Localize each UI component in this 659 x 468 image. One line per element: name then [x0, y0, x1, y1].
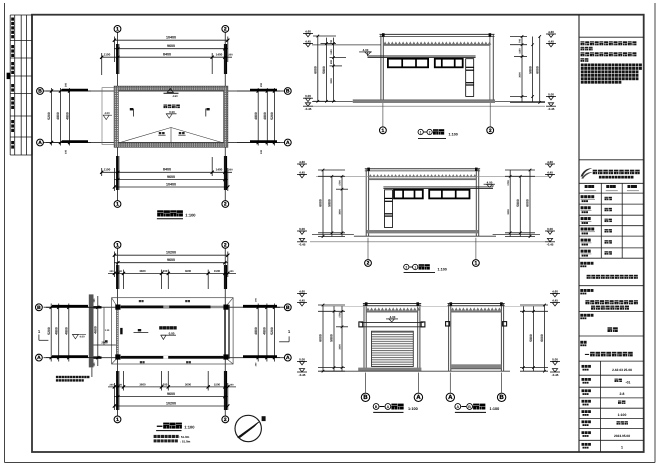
svg-text:1: 1: [116, 417, 119, 423]
grid line B: [44, 90, 285, 92]
svg-text:0.50: 0.50: [169, 110, 175, 114]
svg-text:0.00: 0.00: [547, 227, 553, 231]
svg-text:4800: 4800: [56, 112, 60, 120]
building outline: [448, 304, 450, 372]
svg-text:4.45: 4.45: [548, 39, 554, 43]
svg-text:4.60: 4.60: [552, 289, 558, 293]
svg-text:B: B: [363, 394, 368, 401]
sheet name cell: [580, 341, 583, 344]
svg-text:3300: 3300: [330, 78, 333, 84]
notes under ramp: [56, 376, 58, 378]
svg-text:1: 1: [475, 261, 478, 267]
svg-text:200: 200: [230, 270, 235, 273]
svg-text:200: 200: [110, 270, 115, 273]
elev1 right dims: [521, 37, 523, 103]
svg-text:4800: 4800: [65, 112, 69, 120]
svg-text:5200: 5200: [47, 112, 51, 120]
canopy: [368, 55, 476, 57]
svg-text:-0.45: -0.45: [299, 373, 306, 377]
svg-text:4.60: 4.60: [299, 289, 305, 293]
canopy: [361, 321, 424, 323]
elev2 left dims: [322, 170, 324, 237]
svg-text:10200: 10200: [166, 251, 176, 255]
svg-text:4600: 4600: [94, 326, 98, 334]
svg-text:3300: 3300: [507, 209, 510, 215]
elev4 right dims: [522, 306, 524, 371]
elev2 right flags: [545, 163, 555, 165]
svg-text:1: 1: [382, 128, 385, 134]
door width dim: [94, 344, 116, 346]
grid line 1: [117, 32, 119, 200]
svg-text:B: B: [37, 305, 41, 311]
svg-text:2000: 2000: [101, 340, 108, 344]
svg-text:1: 1: [116, 26, 119, 32]
binding-edge black mark: [7, 73, 11, 79]
svg-text:10200: 10200: [166, 401, 176, 405]
svg-text:3600: 3600: [139, 269, 146, 273]
svg-text:1500: 1500: [214, 382, 221, 386]
louver stack: [385, 190, 393, 228]
svg-text:4.60: 4.60: [299, 160, 305, 164]
canopy: [383, 186, 493, 188]
svg-text:2023.05.08: 2023.05.08: [614, 434, 630, 438]
svg-text:1700: 1700: [339, 180, 342, 186]
svg-text:200: 200: [260, 82, 263, 87]
svg-text:B: B: [286, 305, 290, 311]
svg-text:5200: 5200: [47, 327, 51, 335]
svg-text:200: 200: [228, 54, 233, 57]
svg-text:1: 1: [116, 202, 119, 208]
window band: [388, 59, 428, 68]
svg-text:-0.45: -0.45: [547, 243, 554, 247]
svg-text:6000: 6000: [535, 66, 539, 74]
svg-text:4.60: 4.60: [305, 29, 311, 33]
grid line A: [44, 357, 285, 359]
svg-text:2: 2: [405, 265, 407, 269]
cap corner ticks: [382, 33, 385, 36]
slope ticks: [133, 109, 135, 117]
elevation grid bubbles: [382, 103, 384, 127]
roof plan caption: [157, 210, 163, 216]
svg-text:1:100: 1:100: [185, 212, 196, 217]
caption 1-2: [418, 129, 423, 134]
door tag: [138, 329, 141, 331]
svg-text:A: A: [38, 140, 42, 146]
construction unit cell: [580, 289, 583, 292]
svg-text:1:10: 1:10: [105, 329, 110, 332]
floor grid bubbles: [114, 241, 121, 248]
svg-text:A: A: [416, 394, 421, 401]
floor plan left dimensions: [50, 304, 52, 362]
canopy stubs: [446, 322, 450, 326]
svg-text:4.45: 4.45: [299, 170, 305, 174]
heavy grid witness bars bottom: [116, 156, 118, 190]
roof slab hatched band: [114, 86, 228, 147]
svg-text:1100: 1100: [519, 48, 522, 54]
cap corner ticks: [450, 302, 453, 305]
roof bottom dimensions: [102, 171, 232, 173]
cap corner ticks: [365, 302, 368, 305]
svg-text:0.00: 0.00: [299, 357, 305, 361]
svg-text:9600: 9600: [167, 44, 175, 48]
svg-text:B: B: [468, 405, 471, 409]
svg-text:3600: 3600: [139, 382, 146, 386]
svg-text:9600: 9600: [167, 175, 175, 179]
svg-text:1:100: 1:100: [184, 424, 195, 429]
slope labels: [159, 132, 162, 134]
elev2 right dims: [509, 170, 511, 237]
svg-text:10400: 10400: [166, 182, 176, 186]
svg-text:3600: 3600: [185, 382, 192, 386]
svg-text:A: A: [37, 355, 41, 361]
svg-text:800: 800: [330, 59, 333, 64]
floor plan bottom dimensions: [108, 386, 236, 388]
svg-text:1500: 1500: [214, 269, 221, 273]
caption A-B: [455, 404, 461, 410]
svg-text:4800: 4800: [54, 327, 58, 335]
svg-text:B: B: [499, 394, 504, 401]
svg-text:1: 1: [414, 265, 416, 269]
svg-text:1:100: 1:100: [490, 407, 500, 411]
svg-text:5200: 5200: [270, 327, 274, 335]
roof top dimensions: [114, 39, 227, 41]
svg-text:0.00: 0.00: [299, 227, 305, 231]
grid line 2: [224, 248, 226, 416]
columns: [115, 305, 120, 310]
roof grid bubbles: [114, 26, 121, 33]
svg-text:1400: 1400: [216, 53, 223, 57]
svg-text:A: A: [387, 405, 390, 409]
parapet top level marker: [167, 89, 173, 93]
right wall (double line): [224, 305, 226, 359]
grid line 2: [224, 32, 226, 200]
minus level line: [310, 241, 545, 243]
svg-text:5800: 5800: [328, 199, 332, 207]
svg-text:2: 2: [429, 130, 431, 134]
svg-text:4.00: 4.00: [487, 180, 493, 184]
ground band: [367, 230, 479, 233]
elev1 left dims: [317, 36, 319, 102]
level line 0.00: [312, 100, 353, 102]
svg-text:1700: 1700: [507, 180, 510, 186]
svg-text:1100: 1100: [104, 168, 111, 172]
svg-text:200: 200: [110, 383, 115, 386]
ground band: [353, 100, 495, 103]
minus level line: [310, 105, 545, 107]
window band: [394, 190, 423, 199]
svg-text:2: 2: [224, 417, 227, 423]
svg-text:1:100: 1:100: [449, 133, 458, 137]
parapet wave: [451, 308, 501, 311]
svg-text:1100: 1100: [330, 49, 333, 55]
svg-text:200: 200: [65, 82, 68, 87]
grid line B: [44, 306, 285, 308]
slope annotation: [164, 105, 168, 109]
elev3 left dims: [322, 305, 324, 371]
caption B-A: [373, 404, 379, 410]
svg-text:1: 1: [621, 446, 623, 450]
svg-text:2: 2: [224, 26, 227, 32]
title block: [579, 36, 644, 38]
svg-text:1400: 1400: [216, 168, 223, 172]
elev2 left flags: [297, 163, 307, 165]
svg-text:4800: 4800: [65, 327, 69, 335]
heavy grid witness bars top: [116, 44, 118, 74]
heavy grid witness bars: [116, 265, 118, 289]
svg-text:2-8: 2-8: [620, 392, 625, 396]
left wall (hatched): [116, 305, 119, 360]
svg-text:1: 1: [116, 242, 119, 248]
elev4 right flags: [550, 293, 560, 295]
building outline: [380, 34, 382, 101]
svg-text:-0.45: -0.45: [552, 373, 559, 377]
svg-text:1:100: 1:100: [438, 267, 447, 271]
ground band: [358, 368, 421, 372]
svg-text:2: 2: [224, 242, 227, 248]
room label: [159, 326, 162, 329]
svg-text:8400: 8400: [163, 53, 171, 57]
svg-text:200: 200: [230, 383, 235, 386]
bottom wall: [121, 356, 224, 359]
svg-text:B: B: [375, 405, 378, 409]
svg-text:-01: -01: [626, 381, 631, 385]
svg-text:4.60: 4.60: [548, 30, 554, 34]
louver stack: [466, 59, 474, 97]
revision strip table: [10, 14, 32, 16]
svg-text:9600: 9600: [167, 392, 175, 396]
svg-text:6000: 6000: [319, 199, 323, 207]
elevation grid bubbles: [365, 373, 367, 393]
svg-text:A: A: [286, 355, 290, 361]
building outline: [363, 304, 365, 372]
elev1 right flags: [546, 33, 556, 35]
svg-text:3600: 3600: [519, 72, 522, 78]
svg-text:8400: 8400: [163, 168, 171, 172]
svg-text:100: 100: [65, 149, 68, 154]
svg-text:5800: 5800: [516, 199, 520, 207]
roof left dimensions: [51, 88, 53, 146]
elevation grid bubbles: [449, 373, 451, 393]
svg-text:-0.45: -0.45: [299, 243, 306, 247]
svg-text:700: 700: [519, 38, 522, 43]
parapet wave: [366, 308, 420, 311]
svg-text:5800: 5800: [330, 334, 334, 342]
svg-text:0.00: 0.00: [552, 357, 558, 361]
svg-text:1: 1: [420, 130, 422, 134]
project name cell: [580, 314, 583, 317]
svg-text:4.45: 4.45: [299, 298, 305, 302]
svg-text:A: A: [456, 405, 459, 409]
svg-text:100: 100: [260, 149, 263, 154]
svg-text:6000: 6000: [319, 334, 323, 342]
outer border: [4, 3, 6, 463]
svg-text:4.00: 4.00: [79, 336, 85, 339]
header row: [585, 185, 588, 188]
floor plan right dimensions: [257, 304, 259, 362]
roof right dimensions: [257, 88, 259, 146]
design unit cell: [580, 262, 583, 265]
grid line 1: [117, 248, 119, 416]
level line across both: [323, 305, 545, 307]
door leaf: [120, 328, 122, 334]
svg-text:4.45: 4.45: [552, 298, 558, 302]
svg-text:200: 200: [228, 169, 233, 172]
roof overhang outline: [112, 298, 234, 364]
svg-text:1:100: 1:100: [618, 413, 627, 417]
svg-text:2: 2: [367, 261, 370, 267]
svg-text:B: B: [38, 89, 42, 95]
elevation grid bubbles: [367, 238, 369, 260]
svg-text:5800: 5800: [528, 66, 532, 74]
interior ground band: [451, 364, 501, 368]
floor plan top dimensions: [114, 254, 227, 256]
svg-text:4800: 4800: [263, 112, 267, 120]
svg-text:3400: 3400: [339, 344, 342, 350]
svg-text:: 51.0m: : 51.0m: [180, 440, 191, 444]
svg-text:4.60: 4.60: [172, 95, 178, 98]
notes text: [581, 41, 585, 45]
svg-text:4800: 4800: [254, 112, 258, 120]
level line 0.00: [312, 233, 354, 235]
caption 2-1: [404, 264, 409, 269]
svg-text:4.60: 4.60: [547, 160, 553, 164]
company logo: [581, 168, 592, 176]
grid line A: [44, 142, 285, 144]
svg-text:1100: 1100: [104, 53, 111, 57]
svg-text:-0.45: -0.45: [305, 107, 312, 111]
svg-text:6000: 6000: [314, 66, 318, 74]
ramp leader: [91, 367, 93, 377]
svg-text:-0.45: -0.45: [548, 107, 555, 111]
svg-text:5200: 5200: [270, 112, 274, 120]
svg-text:4.45: 4.45: [305, 39, 311, 43]
svg-text:4.45: 4.45: [547, 170, 553, 174]
level line across: [316, 175, 548, 177]
svg-text:1:100: 1:100: [408, 407, 418, 411]
ramp (exterior): [89, 294, 94, 367]
north arrow: [235, 415, 261, 441]
svg-text:3800: 3800: [339, 209, 342, 215]
cap corner ticks: [367, 168, 370, 171]
elev3 left flags: [297, 293, 307, 295]
svg-text:6000: 6000: [526, 199, 530, 207]
svg-text:5800: 5800: [322, 66, 326, 74]
parapet wave: [383, 42, 491, 45]
building outline: [365, 169, 367, 237]
floor plan caption: [157, 426, 163, 427]
svg-text:10400: 10400: [166, 36, 176, 40]
bottom rows: [582, 365, 585, 368]
level line 4.45: [312, 44, 381, 46]
elev1 left flags: [303, 33, 313, 35]
svg-text:2: 2: [489, 128, 492, 134]
roof ridge lines: [118, 128, 171, 144]
svg-text:A: A: [448, 394, 453, 401]
svg-text:4.00: 4.00: [104, 112, 110, 115]
svg-text:5800: 5800: [529, 334, 533, 342]
svg-text:9600: 9600: [167, 258, 175, 262]
svg-text:2-63 63 25-08: 2-63 63 25-08: [612, 368, 632, 372]
svg-text:B: B: [286, 89, 290, 95]
parapet wave: [369, 174, 477, 177]
top wall: [121, 306, 211, 309]
svg-text:2: 2: [224, 202, 227, 208]
svg-text:3600: 3600: [185, 269, 192, 273]
svg-text:4800: 4800: [254, 327, 258, 335]
rolling shutter door: [372, 331, 414, 366]
svg-text:0.00: 0.00: [305, 94, 311, 98]
svg-text:4800: 4800: [263, 327, 267, 335]
svg-text:6000: 6000: [540, 334, 544, 342]
svg-text:0.00: 0.00: [548, 92, 554, 96]
left eave outline: [102, 88, 114, 145]
svg-text:A: A: [286, 140, 290, 146]
